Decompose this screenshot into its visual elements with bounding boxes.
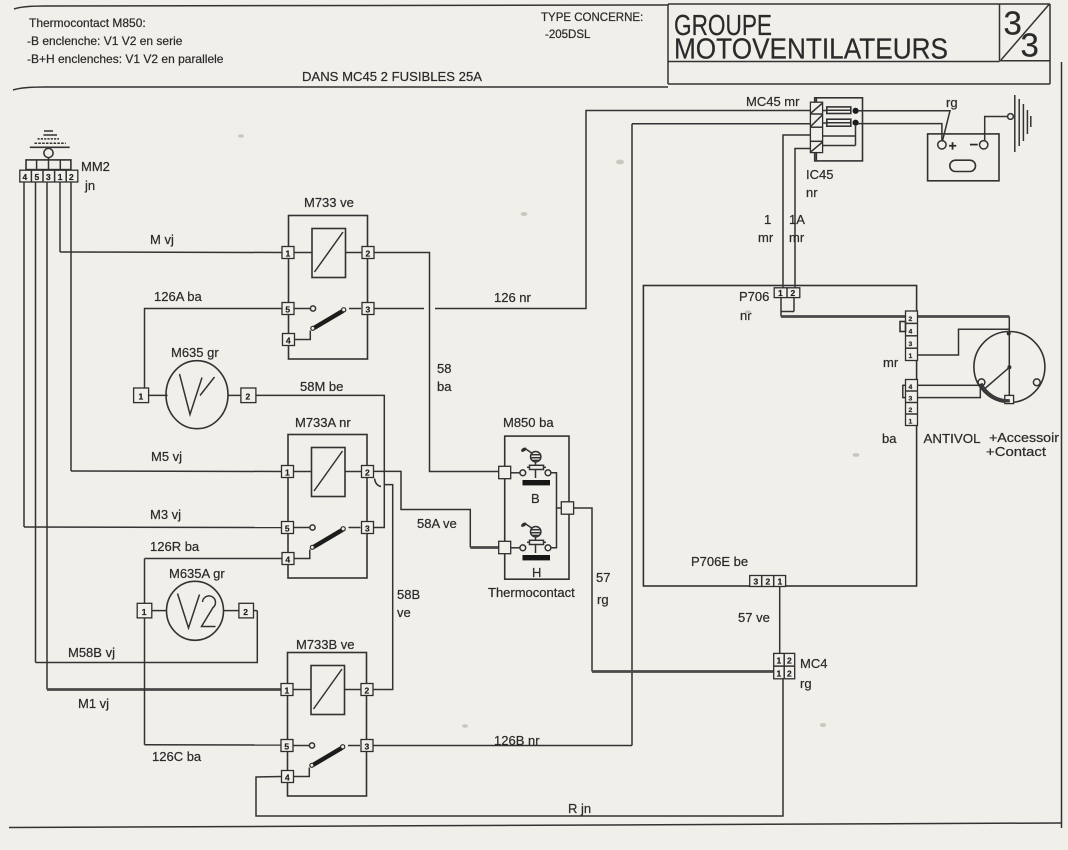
svg-text:ANTIVOL: ANTIVOL bbox=[924, 431, 981, 446]
svg-text:5: 5 bbox=[35, 172, 40, 182]
wire M1 vj (thick) bbox=[47, 688, 281, 691]
svg-text:1: 1 bbox=[909, 419, 913, 426]
wire MM2 pin3 vertical bbox=[46, 182, 48, 690]
svg-text:1A: 1A bbox=[789, 212, 805, 227]
wire 57 rg output bbox=[574, 508, 592, 672]
svg-text:3: 3 bbox=[1021, 27, 1039, 64]
svg-text:57 ve: 57 ve bbox=[738, 610, 770, 625]
svg-text:nr: nr bbox=[806, 185, 818, 200]
wire MM2 pin1 vertical bbox=[59, 182, 61, 252]
wire 57 ve bbox=[779, 587, 781, 654]
svg-text:126 nr: 126 nr bbox=[494, 290, 532, 305]
relay M733B bbox=[281, 653, 373, 797]
svg-text:+Contact: +Contact bbox=[986, 445, 1047, 459]
stepped wire antivol bbox=[918, 329, 1010, 355]
P706E connector bbox=[750, 576, 786, 587]
svg-text:M733A nr: M733A nr bbox=[295, 415, 351, 430]
svg-text:Thermocontact: Thermocontact bbox=[488, 585, 575, 600]
svg-text:126C ba: 126C ba bbox=[152, 749, 202, 764]
header underline bbox=[13, 87, 668, 90]
wire M5 vj bbox=[71, 470, 282, 473]
svg-text:1: 1 bbox=[142, 607, 147, 617]
right page border bbox=[1061, 62, 1063, 828]
svg-text:M733B ve: M733B ve bbox=[296, 637, 355, 652]
svg-text:M3 vj: M3 vj bbox=[150, 507, 181, 522]
motor M635 V1 bbox=[134, 361, 256, 429]
svg-text:2: 2 bbox=[766, 577, 771, 587]
type concerne text bbox=[541, 12, 643, 41]
wire 58B ve branch down to M733B pin2 bbox=[373, 485, 393, 690]
svg-text:126A ba: 126A ba bbox=[154, 289, 202, 304]
ground symbol right bbox=[1008, 95, 1031, 152]
svg-text:B: B bbox=[531, 491, 540, 506]
curl at M733A pin2 bbox=[375, 479, 382, 487]
svg-text:3: 3 bbox=[909, 396, 913, 403]
svg-text:58B: 58B bbox=[397, 587, 420, 602]
svg-text:126R ba: 126R ba bbox=[150, 539, 200, 554]
svg-text:3: 3 bbox=[909, 341, 913, 348]
antivol ignition switch bbox=[974, 317, 1045, 404]
wire battery minus to ground bbox=[985, 117, 1008, 141]
svg-text:2: 2 bbox=[69, 172, 74, 182]
svg-text:1: 1 bbox=[778, 288, 783, 298]
svg-text:+: + bbox=[949, 138, 957, 154]
wire 58 ba from M733 pin2 bbox=[374, 253, 499, 472]
svg-text:126B nr: 126B nr bbox=[494, 733, 540, 748]
thick wire P706 to antivol bbox=[781, 315, 1009, 318]
page number 3/3 bbox=[1001, 5, 1049, 64]
svg-text:4: 4 bbox=[909, 384, 913, 391]
svg-text:4: 4 bbox=[23, 172, 28, 182]
ground symbol above MM2 bbox=[30, 131, 70, 147]
wire MM2 pin5 vertical bbox=[35, 182, 37, 663]
svg-text:1: 1 bbox=[764, 212, 771, 227]
wire M58B vj bbox=[36, 611, 258, 663]
svg-text:P706E be: P706E be bbox=[691, 554, 748, 569]
wire 126C ba bbox=[144, 618, 146, 745]
motor M635A V2 bbox=[137, 581, 257, 640]
svg-text:-B enclenche: V1 V2 en serie: -B enclenche: V1 V2 en serie bbox=[27, 34, 183, 48]
MC4 connector bbox=[774, 653, 795, 678]
wire MM2 pin4 vertical bbox=[23, 182, 25, 527]
svg-text:jn: jn bbox=[84, 178, 95, 193]
title text GROUPE MOTOVENTILATEURS bbox=[674, 10, 948, 66]
M850 contact B bbox=[511, 447, 562, 508]
wire R jn from M733B pin4 bbox=[256, 679, 783, 816]
bottom page border bbox=[9, 823, 1062, 828]
wire 126R ba bbox=[145, 558, 283, 560]
thick band wire to antivol bbox=[903, 385, 981, 397]
svg-text:1: 1 bbox=[58, 172, 63, 182]
svg-text:ba: ba bbox=[437, 379, 452, 394]
wire 126 nr from M733 pin3 bbox=[374, 308, 424, 310]
svg-text:M1 vj: M1 vj bbox=[78, 696, 109, 711]
svg-text:4: 4 bbox=[909, 328, 913, 335]
battery bbox=[928, 134, 999, 181]
svg-text:58A ve: 58A ve bbox=[417, 516, 457, 531]
svg-text:M58B vj: M58B vj bbox=[68, 645, 115, 660]
svg-text:57: 57 bbox=[596, 570, 610, 585]
wire 126B nr from M733B pin3 bbox=[373, 745, 632, 747]
svg-text:2: 2 bbox=[791, 288, 796, 298]
svg-text:MC45 mr: MC45 mr bbox=[746, 94, 800, 109]
P706 connector bbox=[774, 288, 800, 298]
svg-text:M vj: M vj bbox=[150, 232, 174, 247]
svg-text:P706: P706 bbox=[739, 289, 769, 304]
wires MC45 to P706 (1 mr / 1A mr) bbox=[783, 135, 811, 288]
svg-text:Thermocontact M850:: Thermocontact M850: bbox=[29, 16, 146, 30]
svg-text:mr: mr bbox=[789, 230, 805, 245]
svg-text:2: 2 bbox=[246, 392, 251, 402]
svg-text:H: H bbox=[532, 565, 541, 580]
wires under P706 bbox=[780, 298, 782, 317]
svg-text:M5 vj: M5 vj bbox=[151, 449, 182, 464]
svg-text:58M be: 58M be bbox=[300, 379, 343, 394]
svg-text:R jn: R jn bbox=[568, 801, 591, 816]
svg-text:3: 3 bbox=[46, 172, 51, 182]
svg-text:-B+H enclenches: V1 V2 en para: -B+H enclenches: V1 V2 en parallele bbox=[27, 52, 224, 66]
svg-text:2: 2 bbox=[909, 407, 913, 414]
svg-text:ve: ve bbox=[397, 605, 411, 620]
relay M733A bbox=[282, 435, 374, 579]
M850 input square H bbox=[499, 541, 511, 553]
svg-text:3: 3 bbox=[1004, 5, 1022, 42]
svg-text:58: 58 bbox=[437, 361, 451, 376]
title block frame bbox=[668, 4, 1050, 84]
antivol lower connector strip bbox=[906, 380, 918, 426]
thermocontact M850 box bbox=[505, 436, 569, 579]
svg-text:MOTOVENTILATEURS: MOTOVENTILATEURS bbox=[674, 34, 948, 66]
svg-text:1: 1 bbox=[778, 577, 783, 587]
wire MM2 pin2 vertical bbox=[70, 182, 72, 471]
svg-text:DANS MC45 2 FUSIBLES 25A: DANS MC45 2 FUSIBLES 25A bbox=[302, 70, 483, 84]
svg-text:-205DSL: -205DSL bbox=[545, 29, 591, 41]
svg-text:TYPE CONCERNE:: TYPE CONCERNE: bbox=[541, 12, 643, 24]
big box P706 region bbox=[643, 286, 916, 587]
wire 58A ve from M733A pin2 bbox=[374, 471, 471, 547]
svg-text:1: 1 bbox=[139, 392, 144, 402]
svg-text:3: 3 bbox=[754, 577, 759, 587]
wire M vj bbox=[60, 251, 282, 254]
svg-text:2: 2 bbox=[787, 656, 792, 666]
wire 58M be bbox=[256, 395, 384, 527]
antivol upper connector strip bbox=[900, 311, 918, 361]
M850 input square B bbox=[499, 466, 511, 478]
MC45 fuse box bbox=[810, 98, 862, 161]
svg-text:1: 1 bbox=[777, 656, 782, 666]
svg-text:+Accessoir: +Accessoir bbox=[989, 431, 1059, 445]
wire 126A ba bbox=[145, 309, 283, 389]
svg-text:MC4: MC4 bbox=[800, 656, 827, 671]
svg-text:nr: nr bbox=[740, 308, 752, 323]
svg-text:mr: mr bbox=[883, 355, 899, 370]
svg-text:1: 1 bbox=[909, 353, 913, 360]
M850 output square bbox=[561, 502, 573, 514]
svg-text:M733 ve: M733 ve bbox=[304, 195, 354, 210]
svg-text:1: 1 bbox=[777, 669, 782, 679]
relay M733 bbox=[282, 216, 374, 360]
svg-text:−: − bbox=[970, 137, 979, 154]
top border line bbox=[14, 5, 668, 9]
header note text bbox=[27, 16, 224, 66]
M850 contact H bbox=[511, 508, 557, 580]
svg-text:2: 2 bbox=[909, 316, 913, 323]
svg-text:rg: rg bbox=[946, 95, 958, 110]
svg-text:IC45: IC45 bbox=[806, 167, 833, 182]
svg-text:M850 ba: M850 ba bbox=[503, 415, 554, 430]
svg-text:ba: ba bbox=[882, 431, 897, 446]
svg-text:2: 2 bbox=[787, 669, 792, 679]
svg-text:mr: mr bbox=[758, 230, 774, 245]
svg-text:M635 gr: M635 gr bbox=[171, 345, 219, 360]
wire from fuse2 down long vertical bbox=[631, 124, 633, 746]
svg-text:rg: rg bbox=[597, 592, 609, 607]
wires fuse outputs to battery bbox=[858, 111, 950, 142]
svg-text:MM2: MM2 bbox=[81, 159, 110, 174]
wire M3 vj bbox=[24, 526, 282, 529]
svg-text:rg: rg bbox=[800, 676, 812, 691]
svg-text:2: 2 bbox=[243, 607, 248, 617]
svg-text:M635A gr: M635A gr bbox=[169, 566, 225, 581]
MM2 connector body bbox=[20, 148, 78, 182]
